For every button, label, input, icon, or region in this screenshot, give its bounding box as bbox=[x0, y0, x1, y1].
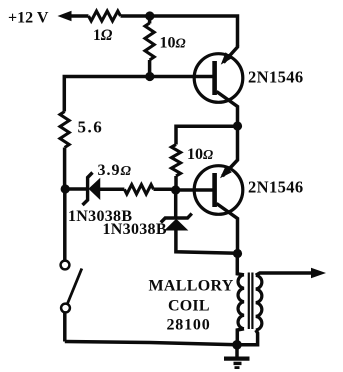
node B junction dot bbox=[145, 72, 154, 81]
zener diode D2 triangle bbox=[166, 220, 187, 230]
wire primary bottom to node G bbox=[237, 329, 244, 345]
output arrowhead bbox=[311, 268, 326, 278]
transistor Q1 base bar bbox=[212, 61, 217, 95]
wire R3 to node E bbox=[63, 148, 67, 190]
transistor Q2 circle bbox=[194, 166, 243, 215]
wire node A to top-right corner bbox=[150, 16, 238, 46]
wire node D to Q2 base bbox=[176, 188, 213, 192]
resistor R4 10 ohm bbox=[171, 145, 180, 177]
svg-text:10Ω: 10Ω bbox=[187, 146, 213, 163]
wire node F to transformer primary top bbox=[237, 254, 244, 275]
svg-text:COIL: COIL bbox=[168, 297, 210, 314]
wire D1 to R5 bbox=[99, 188, 124, 192]
zener diode D1 triangle bbox=[90, 180, 100, 199]
svg-text:3.9Ω: 3.9Ω bbox=[98, 162, 132, 179]
ground stem bbox=[235, 345, 239, 358]
wire R5 to node D bbox=[154, 188, 176, 192]
wire switch down to bottom corner bbox=[63, 313, 67, 342]
wire node B to Q1 base bbox=[150, 75, 213, 79]
ground bar 1 bbox=[224, 357, 250, 361]
wire left rail to switch bbox=[63, 189, 67, 261]
transistor Q1 collector lead bbox=[217, 92, 238, 127]
transistor Q2 collector lead bbox=[217, 204, 238, 254]
resistor R1 1 ohm bbox=[89, 11, 121, 21]
wire secondary bottom return to node G bbox=[237, 330, 258, 345]
svg-text:2N1546: 2N1546 bbox=[248, 178, 304, 197]
svg-text:10Ω: 10Ω bbox=[160, 35, 186, 52]
node A junction dot bbox=[145, 11, 154, 20]
transistor Q2 emitter arrowhead bbox=[220, 166, 232, 178]
svg-text:MALLORY: MALLORY bbox=[149, 278, 234, 295]
node F junction dot bbox=[233, 249, 242, 258]
wire R1 to node A bbox=[121, 14, 150, 18]
wire R4 to node D bbox=[174, 176, 178, 190]
svg-text:28100: 28100 bbox=[167, 316, 211, 333]
+12V supply arrow bbox=[58, 11, 72, 21]
wire node D to zener D2 bbox=[174, 190, 178, 218]
transformer T1 secondary winding bbox=[256, 275, 262, 330]
transistor Q2 emitter lead bbox=[223, 126, 238, 176]
resistor R2 10 ohm bbox=[145, 23, 154, 60]
svg-text:1Ω: 1Ω bbox=[93, 27, 113, 44]
transistor Q1 emitter arrowhead bbox=[221, 52, 233, 64]
resistor R2 10 ohm leads bbox=[148, 16, 152, 24]
bottom wire to node G bbox=[65, 342, 237, 345]
zener diode D2 1N3038B bar bbox=[161, 214, 192, 223]
ground bar 2 bbox=[234, 362, 242, 365]
svg-text:+12 V: +12 V bbox=[8, 10, 49, 27]
wire node E to diode D1 bbox=[65, 187, 86, 191]
node D junction dot bbox=[171, 185, 180, 194]
switch S1 blade bbox=[68, 269, 82, 304]
wire D2 anode down and right to node F bbox=[176, 229, 238, 253]
svg-text:2N1546: 2N1546 bbox=[248, 68, 304, 87]
zener diode D1 1N3038B bar bbox=[83, 173, 93, 206]
switch S1 bottom contact bbox=[61, 304, 70, 313]
transformer T1 primary winding bbox=[238, 275, 244, 329]
resistor R3 5.6 bbox=[60, 112, 69, 148]
transformer T1 core bbox=[248, 273, 250, 330]
wire R2 to node B bbox=[148, 60, 152, 77]
resistor R5 3.9 ohm bbox=[124, 185, 153, 195]
node C junction dot bbox=[233, 121, 242, 130]
transistor Q1 circle bbox=[194, 54, 243, 103]
svg-text:5.6: 5.6 bbox=[78, 118, 104, 137]
switch S1 top contact bbox=[61, 261, 70, 270]
wire node C to R4 corner bbox=[176, 126, 238, 144]
transistor Q1 emitter lead bbox=[224, 45, 238, 63]
wire arrow to resistor R1 bbox=[69, 14, 89, 18]
transistor Q2 base bar bbox=[212, 173, 217, 207]
wire secondary top to output bbox=[256, 273, 313, 275]
node E junction dot bbox=[61, 184, 70, 193]
svg-text:1N3038B: 1N3038B bbox=[103, 221, 167, 238]
node G junction dot bbox=[232, 340, 242, 350]
ground bar 3 bbox=[235, 366, 240, 369]
wire node B to left rail corner bbox=[64, 77, 150, 112]
